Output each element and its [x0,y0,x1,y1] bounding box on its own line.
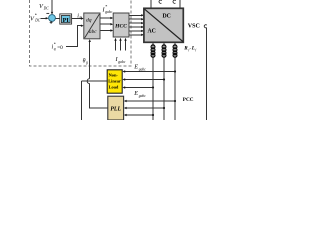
svg-text:E: E [133,64,138,71]
svg-text:DC: DC [43,6,50,10]
svg-text:Load: Load [109,85,119,90]
svg-text:=0: =0 [57,45,63,51]
svg-text:E: E [133,90,138,97]
svg-text:*: * [105,4,107,9]
svg-text:PCC: PCC [183,97,194,103]
svg-text:HCC: HCC [114,23,127,29]
svg-text:Non-: Non- [109,73,119,78]
svg-text:gabc: gabc [139,94,146,98]
svg-text:PI: PI [63,17,70,24]
svg-text:q: q [54,47,56,51]
svg-text:gabc: gabc [105,10,112,14]
svg-text:dq: dq [86,18,92,24]
svg-text:g: g [86,61,88,65]
svg-text:DC: DC [34,19,41,23]
svg-text:abc: abc [89,29,97,35]
svg-text:DC: DC [163,13,171,19]
svg-text:*: * [35,13,37,18]
svg-text:gabc: gabc [118,60,125,64]
svg-text:m: m [80,16,83,20]
svg-text:AC: AC [148,29,156,35]
svg-text:gabc: gabc [139,68,146,72]
svg-text:PLL: PLL [110,106,121,112]
svg-text:Linear: Linear [108,79,121,84]
svg-text:VSC: VSC [188,23,200,29]
svg-text:*: * [54,42,56,47]
